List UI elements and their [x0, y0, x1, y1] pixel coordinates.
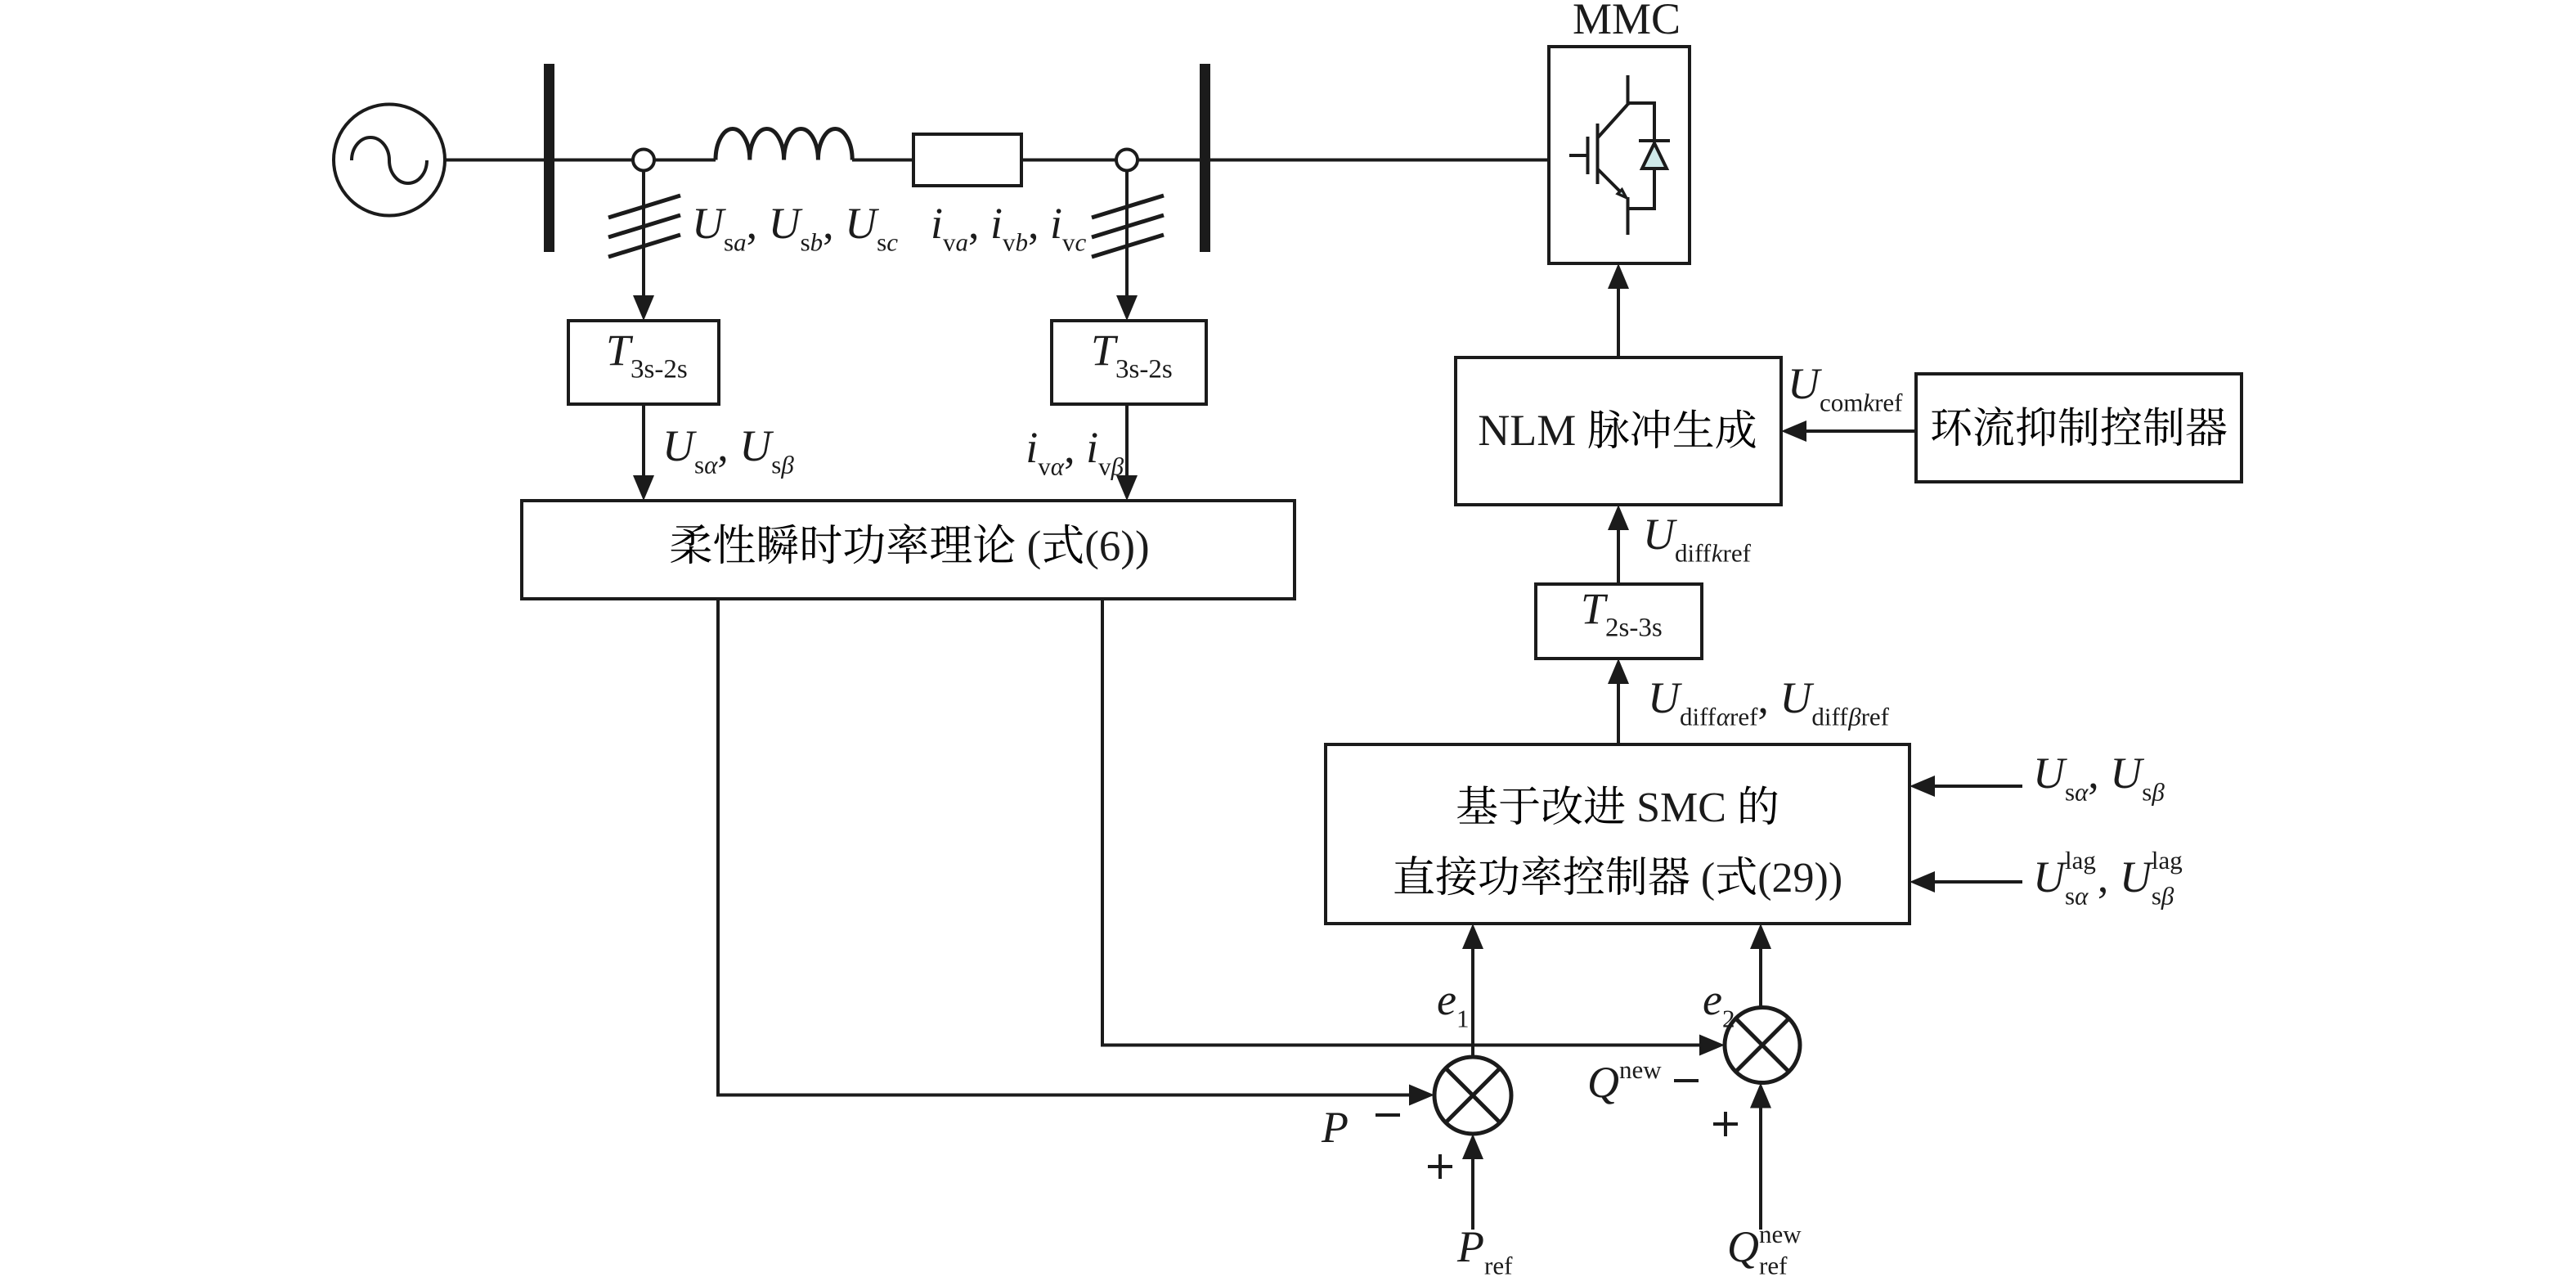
svg-text:β: β [2161, 882, 2174, 911]
svg-text:U: U [2110, 749, 2144, 798]
three-phase slashes on tap 1 [608, 196, 680, 257]
svg-text:1: 1 [1456, 1005, 1470, 1033]
resistor R (equivalent arm resistance) [913, 134, 1021, 186]
svg-text:α: α [704, 451, 718, 479]
label e2 [1703, 975, 1735, 1033]
wire Pref into S1 [1471, 1159, 1474, 1230]
svg-text:,: , [1028, 199, 1039, 248]
label Udiffkref [1643, 510, 1752, 568]
svg-text:,: , [968, 199, 980, 248]
plus sign at S2 [1713, 1112, 1738, 1136]
svg-text:U: U [2120, 852, 2154, 902]
svg-text:s: s [801, 228, 810, 257]
freewheel diode D1 inside MMC [1628, 103, 1671, 209]
svg-text:(: ( [1027, 523, 1042, 570]
svg-text:MMC: MMC [1573, 0, 1681, 43]
arrow Uslag into SMC box [1935, 880, 2022, 884]
wire Qnew output (right leg) to summer 2 [1102, 599, 1699, 1045]
svg-text:ref: ref [1730, 703, 1758, 731]
wire busbar1 to node1 [554, 159, 633, 162]
tap wire from node1 down to T3s-2s [642, 171, 645, 298]
svg-text:new: new [1759, 1220, 1802, 1248]
arrow SMC output up to T2s-3s [1617, 684, 1620, 744]
svg-text:lag: lag [2065, 846, 2096, 875]
wire node1 to inductor [654, 159, 716, 162]
svg-text:2s-3s: 2s-3s [1605, 614, 1663, 643]
label Qref new [1727, 1220, 1802, 1277]
svg-text:s: s [2065, 882, 2075, 911]
ac source G1 [334, 105, 445, 216]
svg-text:com: com [1820, 389, 1863, 417]
svg-text:α: α [1051, 452, 1065, 481]
svg-text:ref: ref [1484, 1252, 1513, 1277]
svg-text:ref: ref [1759, 1252, 1788, 1277]
svg-text:U: U [2033, 749, 2067, 798]
svg-text:b: b [810, 228, 824, 257]
svg-text:b: b [1016, 228, 1029, 257]
svg-text:diff: diff [1811, 703, 1848, 731]
svg-text:i: i [1050, 199, 1062, 248]
wire e1 from S1 to SMC controller [1471, 949, 1474, 1057]
minus sign at S2 [1674, 1079, 1699, 1082]
label Pref [1456, 1222, 1513, 1277]
svg-text:diff: diff [1675, 539, 1712, 568]
busbar 1 [544, 64, 554, 252]
arrow from suppression controller to NLM [1806, 429, 1916, 433]
svg-text:U: U [1648, 673, 1682, 722]
label Uslag alpha beta (right) [2033, 846, 2183, 911]
svg-text:SMC: SMC [1636, 785, 1726, 831]
svg-text:U: U [769, 199, 803, 248]
wire busbar2 to MMC [1210, 159, 1549, 162]
svg-text:,: , [2088, 749, 2099, 798]
wire P output (left leg) to summer 1 [718, 599, 1409, 1095]
block MMC outline [1549, 47, 1690, 263]
svg-text:U: U [2033, 852, 2067, 902]
svg-text:U: U [1779, 673, 1814, 722]
block T3s-2s (voltage) [568, 321, 719, 404]
svg-text:,: , [2098, 852, 2109, 902]
label Usalpha, Usbeta (right) [2033, 749, 2165, 807]
tap wire from node2 down to T3s-2s [1125, 171, 1129, 298]
svg-text:T: T [1091, 326, 1119, 375]
svg-text:U: U [845, 199, 879, 248]
svg-text:e: e [1703, 975, 1722, 1024]
svg-text:v: v [943, 228, 956, 257]
node N2 (current measurement tap) [1116, 150, 1138, 171]
svg-text:c: c [886, 228, 898, 257]
svg-text:s: s [2065, 778, 2075, 807]
svg-text:s: s [2152, 882, 2161, 911]
wire e2 from S2 to SMC controller [1759, 949, 1762, 1008]
svg-text:,: , [1064, 423, 1075, 472]
block: direct power controller based on improved SMC (eq 29) [1326, 744, 1910, 924]
busbar 2 [1200, 64, 1210, 252]
svg-text:U: U [1643, 510, 1677, 559]
label ivalpha, ivbeta [1025, 423, 1124, 481]
svg-text:2: 2 [1722, 1005, 1735, 1033]
IGBT Q1 inside MMC [1569, 75, 1628, 235]
svg-text:a: a [956, 228, 969, 257]
svg-text:P: P [1321, 1103, 1349, 1152]
svg-text:U: U [739, 421, 774, 470]
svg-text:,: , [717, 421, 729, 470]
svg-text:new: new [1619, 1055, 1662, 1084]
svg-text:s: s [771, 451, 781, 479]
svg-text:U: U [662, 421, 697, 470]
svg-text:e: e [1437, 975, 1456, 1024]
svg-text:,: , [823, 199, 834, 248]
svg-text:c: c [1075, 228, 1087, 257]
label iva, ivb, ivc [931, 199, 1087, 257]
svg-text:s: s [877, 228, 886, 257]
label Usalpha, Usbeta [662, 421, 794, 479]
svg-text:ref: ref [1723, 539, 1752, 568]
label Udiffalpharef, Udiffbetaref [1648, 673, 1890, 731]
svg-text:β: β [1847, 703, 1861, 731]
svg-text:s: s [2142, 778, 2152, 807]
wire source to busbar1 [445, 159, 544, 162]
label Qnew [1587, 1055, 1662, 1107]
wire resistor to node2 [1021, 159, 1116, 162]
svg-text:U: U [1788, 359, 1822, 408]
label Usa, Usb, Usc [692, 199, 898, 257]
svg-text:s: s [694, 451, 704, 479]
summing junction S2 (Q error) [1725, 1008, 1800, 1083]
svg-text:lag: lag [2152, 846, 2183, 875]
block T2s-3s [1536, 584, 1702, 659]
label Ucomkref [1788, 359, 1903, 417]
svg-text:(29)): (29)) [1757, 855, 1842, 902]
svg-text:ref: ref [1861, 703, 1890, 731]
arrow Usalpha Usbeta into SMC box [1935, 785, 2022, 788]
svg-text:a: a [734, 228, 747, 257]
svg-text:,: , [1757, 673, 1769, 722]
wire node2 to busbar2 [1138, 159, 1200, 162]
block T3s-2s (current) [1052, 321, 1206, 404]
svg-text:ref: ref [1874, 389, 1903, 417]
svg-text:P: P [1456, 1222, 1484, 1271]
wire T3s-2s(V) to power theory block [642, 404, 645, 477]
svg-text:3s-2s: 3s-2s [1115, 355, 1173, 384]
svg-text:diff: diff [1680, 703, 1717, 731]
minus sign at S1 [1376, 1113, 1400, 1117]
svg-text:v: v [1062, 228, 1075, 257]
svg-text:α: α [1717, 703, 1730, 731]
arrow NLM up to MMC [1617, 289, 1620, 357]
label P [1321, 1103, 1349, 1152]
svg-text:T: T [1581, 584, 1609, 633]
svg-text:v: v [1038, 452, 1051, 481]
svg-text:i: i [1025, 423, 1038, 472]
svg-text:i: i [931, 199, 943, 248]
svg-text:,: , [747, 199, 758, 248]
svg-text:s: s [724, 228, 734, 257]
summing junction S1 (P error) [1434, 1057, 1511, 1134]
svg-text:U: U [692, 199, 726, 248]
wire inductor to resistor [852, 159, 913, 162]
node N1 (voltage measurement tap) [633, 150, 654, 171]
label e1 [1437, 975, 1470, 1033]
block: flexible instantaneous power theory (eq 6) [522, 501, 1295, 599]
svg-text:β: β [1111, 452, 1124, 481]
svg-text:i: i [990, 199, 1003, 248]
svg-text:T: T [606, 326, 634, 375]
svg-text:(6)): (6)) [1084, 523, 1149, 570]
svg-text:i: i [1086, 423, 1098, 472]
svg-text:α: α [2075, 882, 2089, 911]
svg-text:α: α [2075, 778, 2089, 807]
block: NLM pulse generation [1456, 357, 1781, 505]
svg-text:β: β [2151, 778, 2165, 807]
block: circulating current suppression controller [1916, 374, 2242, 482]
wire Qref into S2 [1759, 1108, 1762, 1230]
svg-text:NLM: NLM [1478, 406, 1576, 455]
svg-text:Q: Q [1727, 1222, 1759, 1271]
wire T3s-2s(I) to power theory block [1125, 404, 1129, 477]
inductor L (arm reactor) [716, 129, 852, 160]
plus sign at S1 [1428, 1154, 1452, 1179]
three-phase slashes on tap 2 [1092, 196, 1164, 257]
svg-text:β: β [780, 451, 794, 479]
label MMC [1573, 0, 1681, 43]
svg-text:v: v [1098, 452, 1111, 481]
svg-text:Q: Q [1587, 1058, 1619, 1107]
arrow T2s-3s up to NLM [1617, 530, 1620, 584]
svg-text:(: ( [1701, 855, 1715, 902]
svg-text:v: v [1003, 228, 1016, 257]
svg-text:3s-2s: 3s-2s [631, 355, 688, 384]
